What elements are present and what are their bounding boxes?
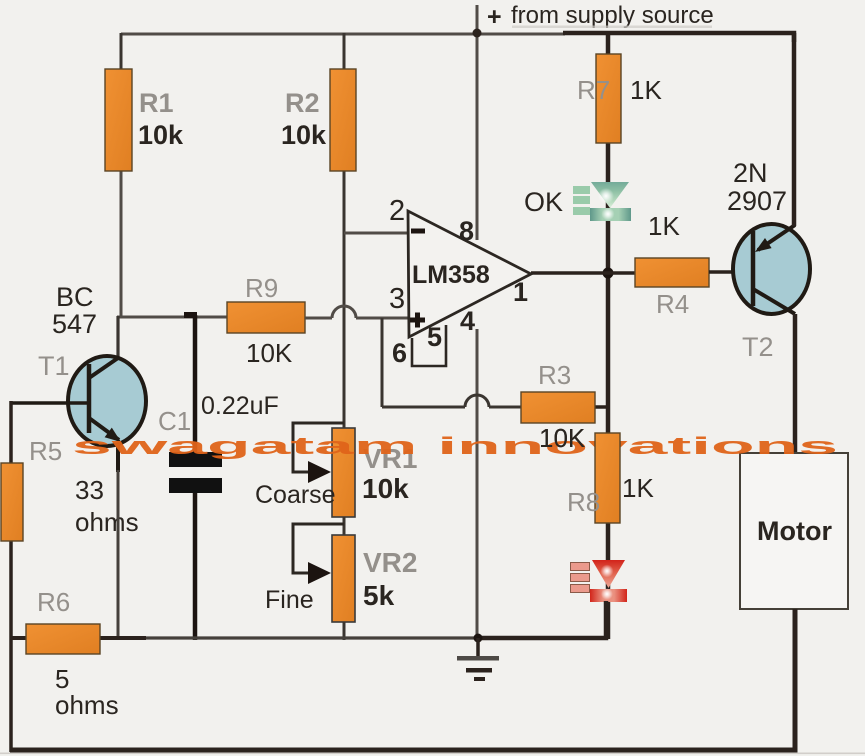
resistor R5 <box>1 436 139 541</box>
svg-text:5: 5 <box>427 322 442 352</box>
svg-text:1: 1 <box>513 277 528 307</box>
svg-text:R4: R4 <box>656 289 689 319</box>
resistor R2 <box>281 69 356 171</box>
faint bottom edge line <box>0 753 865 755</box>
junction ground node <box>474 634 483 643</box>
wire pin3 node down to R3 with hop over supply line <box>382 318 610 407</box>
wire T1 base from left column <box>11 401 89 405</box>
svg-text:Motor: Motor <box>757 516 832 546</box>
resistor R3 <box>521 360 595 453</box>
resistor R6 <box>26 587 119 720</box>
wire T2 collector down to motor <box>793 314 798 454</box>
svg-text:4: 4 <box>460 306 475 336</box>
transistor T1 BC547 <box>38 282 146 446</box>
svg-text:3: 3 <box>389 283 405 315</box>
svg-text:VR2: VR2 <box>363 547 417 578</box>
svg-text:10k: 10k <box>138 120 184 150</box>
svg-text:6: 6 <box>392 338 407 368</box>
svg-text:10K: 10K <box>246 338 293 368</box>
potentiometer VR1 <box>255 423 417 517</box>
wire VR2 bottom to rail <box>343 622 346 640</box>
svg-text:R8: R8 <box>567 487 600 517</box>
svg-text:R2: R2 <box>285 88 320 118</box>
capacitor C1 <box>158 312 279 640</box>
svg-text:from supply source: from supply source <box>511 2 714 29</box>
wire pin5 pin6 strap <box>412 325 446 366</box>
svg-text:T2: T2 <box>742 332 774 362</box>
junction output node <box>603 268 614 279</box>
resistor R7 <box>577 54 662 143</box>
svg-text:2N: 2N <box>733 158 768 188</box>
svg-text:5k: 5k <box>363 580 395 611</box>
wire R4 to T2 base <box>709 270 754 274</box>
svg-text:2: 2 <box>389 195 405 227</box>
potentiometer VR2 <box>265 524 417 622</box>
svg-text:Coarse: Coarse <box>255 481 336 509</box>
resistor R1 <box>105 69 184 171</box>
wire motor to bottom rail <box>10 609 795 750</box>
svg-text:1K: 1K <box>648 211 680 241</box>
svg-text:10k: 10k <box>362 473 409 504</box>
svg-text:+: + <box>487 3 502 31</box>
wire left column vertical <box>9 401 13 752</box>
wire R1 branch <box>120 33 123 318</box>
svg-text:LM358: LM358 <box>412 261 490 289</box>
svg-text:8: 8 <box>459 216 474 246</box>
svg-text:R3: R3 <box>538 360 571 390</box>
svg-text:R7: R7 <box>577 75 610 105</box>
ground <box>457 638 499 681</box>
svg-text:BC: BC <box>56 282 94 312</box>
svg-text:33: 33 <box>75 475 104 505</box>
svg-text:R1: R1 <box>139 88 174 118</box>
resistor R9 <box>227 273 305 368</box>
svg-text:R5: R5 <box>29 436 62 466</box>
svg-text:1K: 1K <box>630 75 662 105</box>
junction supply node <box>473 29 482 38</box>
resistor R8 <box>567 433 654 523</box>
wire R9 to pin3 with hop over R2 line <box>305 306 409 318</box>
svg-text:C1: C1 <box>158 406 191 436</box>
svg-text:T1: T1 <box>38 351 70 381</box>
svg-text:10k: 10k <box>281 120 327 150</box>
LED red <box>571 560 628 602</box>
LED green OK <box>524 182 631 221</box>
wire output column R7/LED/R8 vertical <box>606 33 611 639</box>
svg-text:R6: R6 <box>37 587 70 617</box>
svg-text:1K: 1K <box>622 473 654 503</box>
wire opamp output to R4 <box>531 271 636 275</box>
svg-text:ohms: ohms <box>75 507 139 537</box>
resistor R4 <box>635 211 709 319</box>
svg-text:2907: 2907 <box>727 186 787 216</box>
wire VR1 to VR2 <box>343 517 346 535</box>
svg-text:R9: R9 <box>245 273 278 303</box>
motor M1 <box>740 453 848 609</box>
svg-text:0.22uF: 0.22uF <box>201 392 279 420</box>
wire node T1 collector / R9 / C1 <box>117 316 228 359</box>
node + from supply source <box>487 2 714 31</box>
wire T1 emitter down <box>116 443 120 640</box>
wire R2 branch <box>343 33 346 429</box>
wire top supply rail <box>121 33 794 42</box>
op-amp U1 LM358 <box>389 195 531 368</box>
svg-text:547: 547 <box>52 309 97 339</box>
wire bottom rail y638 <box>11 601 606 638</box>
svg-text:10K: 10K <box>539 423 586 453</box>
svg-text:Fine: Fine <box>265 586 314 614</box>
wire supply vertical to ground <box>476 5 479 638</box>
svg-text:swagatam innovations: swagatam innovations <box>72 433 838 460</box>
wire pin2 input <box>344 232 409 235</box>
transistor T2 2N2907 <box>727 158 810 362</box>
svg-text:OK: OK <box>524 187 563 217</box>
wire T2 emitter up to supply rail <box>792 33 797 226</box>
svg-text:ohms: ohms <box>55 690 119 720</box>
